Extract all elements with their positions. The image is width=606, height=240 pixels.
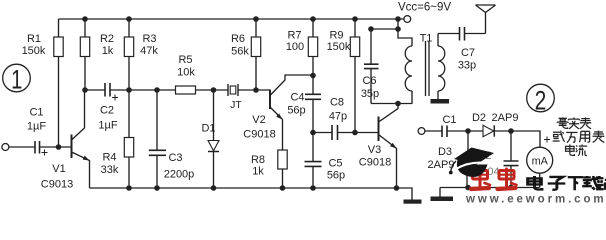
svg-text:150k: 150k bbox=[22, 45, 46, 57]
svg-text:R1: R1 bbox=[27, 33, 41, 45]
svg-text:1k: 1k bbox=[102, 45, 114, 57]
svg-text:V2: V2 bbox=[252, 114, 265, 126]
svg-text:56k: 56k bbox=[231, 46, 249, 58]
svg-text:150k: 150k bbox=[327, 41, 351, 53]
svg-text:mA: mA bbox=[532, 156, 549, 168]
svg-text:D1: D1 bbox=[201, 123, 215, 135]
svg-text:C8: C8 bbox=[330, 97, 344, 109]
svg-text:R6: R6 bbox=[231, 33, 245, 45]
svg-text:33p: 33p bbox=[458, 60, 476, 72]
svg-text:R8: R8 bbox=[251, 154, 265, 166]
svg-text:1µF: 1µF bbox=[98, 120, 117, 132]
svg-text:C9018: C9018 bbox=[243, 129, 275, 141]
svg-text:D3: D3 bbox=[438, 146, 452, 158]
svg-text:R5: R5 bbox=[178, 54, 192, 66]
svg-text:T1: T1 bbox=[420, 33, 433, 45]
svg-text:56p: 56p bbox=[287, 105, 305, 117]
svg-text:1: 1 bbox=[11, 65, 22, 96]
svg-text:www.eeworm.com: www.eeworm.com bbox=[465, 193, 606, 205]
svg-text:C5: C5 bbox=[328, 158, 342, 170]
svg-text:47k: 47k bbox=[140, 45, 158, 57]
svg-text:1µF: 1µF bbox=[27, 121, 46, 133]
svg-text:R4: R4 bbox=[102, 152, 116, 164]
svg-text:C4: C4 bbox=[290, 92, 304, 104]
svg-text:2AP9: 2AP9 bbox=[428, 159, 455, 171]
svg-text:35p: 35p bbox=[361, 88, 379, 100]
svg-text:2: 2 bbox=[535, 86, 547, 116]
svg-text:47p: 47p bbox=[329, 111, 347, 123]
svg-text:C7: C7 bbox=[461, 47, 475, 59]
svg-text:C2: C2 bbox=[100, 105, 114, 117]
svg-text:C1: C1 bbox=[442, 114, 456, 126]
svg-text:R7: R7 bbox=[287, 30, 301, 42]
svg-text:2200p: 2200p bbox=[164, 169, 195, 181]
svg-text:V3: V3 bbox=[368, 144, 381, 156]
svg-text:C6: C6 bbox=[362, 75, 376, 87]
svg-text:Vcc=6~9V: Vcc=6~9V bbox=[398, 2, 451, 14]
svg-text:D2: D2 bbox=[472, 112, 486, 124]
svg-text:R3: R3 bbox=[142, 33, 156, 45]
svg-text:33k: 33k bbox=[101, 164, 119, 176]
svg-text:R9: R9 bbox=[329, 30, 343, 42]
svg-text:10k: 10k bbox=[177, 67, 195, 79]
svg-text:JT: JT bbox=[230, 99, 242, 111]
svg-text:R2: R2 bbox=[100, 33, 114, 45]
svg-text:C9018: C9018 bbox=[359, 157, 391, 169]
svg-text:100: 100 bbox=[286, 41, 304, 53]
svg-text:1k: 1k bbox=[252, 166, 264, 178]
svg-text:2AP9: 2AP9 bbox=[492, 112, 519, 124]
svg-text:C3: C3 bbox=[168, 152, 182, 164]
svg-text:C1: C1 bbox=[29, 107, 43, 119]
svg-text:56p: 56p bbox=[327, 170, 345, 182]
svg-text:C9013: C9013 bbox=[41, 179, 73, 191]
svg-text:V1: V1 bbox=[52, 163, 65, 175]
